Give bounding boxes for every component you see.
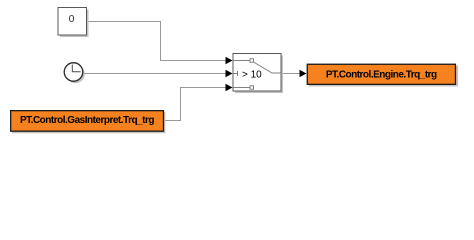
svg-text:PT.Control.Engine.Trq_trg: PT.Control.Engine.Trq_trg [326,70,437,81]
svg-text:> 10: > 10 [242,70,262,81]
svg-text:0: 0 [69,13,75,25]
svg-text:PT.Control.GasInterpret.Trq_tr: PT.Control.GasInterpret.Trq_trg [20,115,154,126]
